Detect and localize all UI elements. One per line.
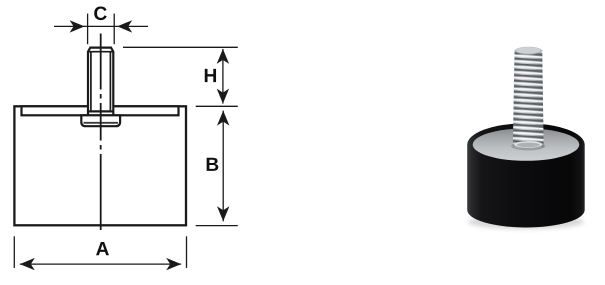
extension line stud top (for H) [123,46,238,48]
soft shadow around stud base [511,142,545,151]
ground shadow [468,215,584,229]
dimension A extension line left [13,236,15,268]
label B [207,158,219,171]
extension line body top (for H/B) [196,105,238,107]
chamfer line [88,51,113,53]
C arrow left-pointing [117,20,132,32]
dimension C line [54,25,148,27]
dimension C extension line right [113,14,115,45]
thread line right [109,53,111,111]
dimension A extension line right [186,236,188,268]
top metal plate strip [22,106,179,115]
H arrow up [217,49,229,64]
stud bottom bar [88,110,113,112]
A arrow left-pointing [20,258,35,270]
B arrow down [217,206,229,221]
thread line left [90,53,92,111]
B arrow up [217,111,229,126]
C arrow right-pointing [70,20,85,32]
body outline (rubber cylinder side view) [14,106,186,225]
dimension B line [222,111,224,222]
stud top cap [515,47,542,55]
dimension H line [222,49,224,104]
metal top plate face [473,128,580,160]
label A [96,242,109,255]
bright thread runout ring at stud base [514,141,542,148]
label C [94,6,107,20]
label H [205,69,216,82]
dimension A line [20,263,181,265]
extension line body bottom (for B) [196,225,238,227]
dimension C extension line left [87,14,89,45]
stud body with chamfered top [88,48,113,116]
thread stripes [513,50,544,144]
rubber cylinder silhouette [467,123,585,227]
H arrow down [217,89,229,104]
center line (dash-dot) [100,34,102,231]
threaded stud body [513,50,544,148]
A arrow right-pointing [166,258,181,270]
collar chamfer line [84,122,119,124]
collar below plate [81,115,120,126]
